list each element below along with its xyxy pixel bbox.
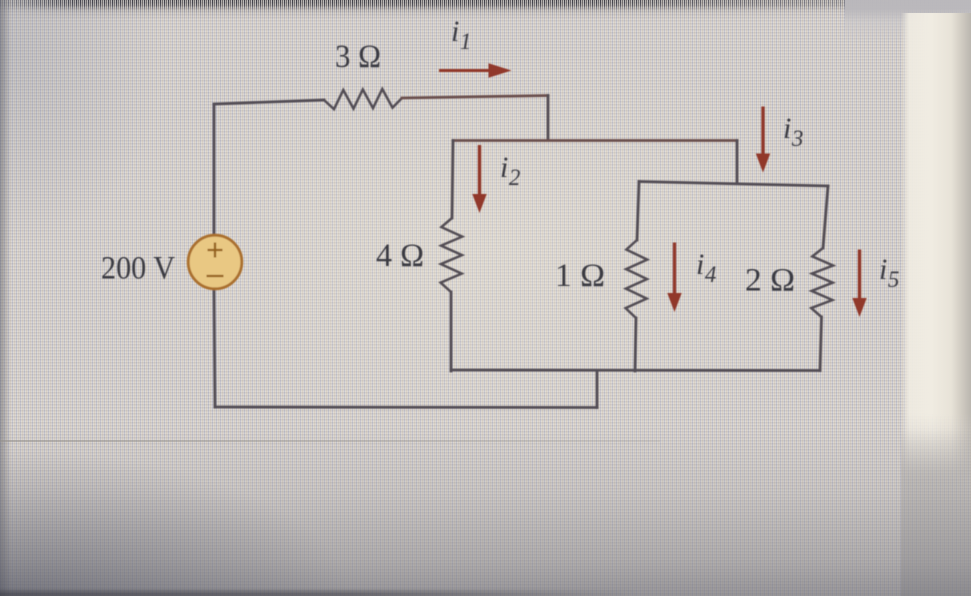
svg-text:2 Ω: 2 Ω — [745, 263, 795, 299]
svg-text:i1: i1 — [451, 15, 471, 54]
wire middle bottom bus — [451, 369, 820, 372]
wire top left — [214, 100, 324, 104]
wire 1 ohm branch bottom lead — [635, 318, 636, 371]
wire 1 ohm branch top lead — [637, 182, 639, 241]
wire outer bottom return — [215, 406, 597, 409]
voltage source V1 200V (circle) — [188, 235, 242, 289]
wire 2 ohm branch bottom lead — [820, 317, 822, 371]
resistor R2 4 ohm (vertical zigzag) — [441, 218, 463, 292]
svg-text:4 Ω: 4 Ω — [376, 238, 424, 274]
svg-text:i5: i5 — [879, 253, 899, 292]
wire left vertical (source top lead) — [213, 105, 216, 235]
wire 4 ohm branch bottom lead — [450, 292, 453, 371]
current arrow i3 — [756, 107, 770, 173]
svg-text:1 Ω: 1 Ω — [555, 258, 605, 294]
wire jog down to outer bottom — [596, 371, 599, 408]
current arrow i2 — [472, 145, 486, 213]
svg-text:i3: i3 — [783, 112, 803, 151]
wire middle horizontal (node A bus) — [453, 139, 737, 142]
current arrow i4 — [667, 243, 681, 313]
svg-text:200 V: 200 V — [101, 251, 175, 287]
svg-text:i4: i4 — [696, 248, 716, 287]
svg-text:i2: i2 — [500, 151, 520, 190]
wire top right of 3 ohm — [402, 96, 548, 99]
wire 4 ohm branch top lead — [452, 141, 453, 219]
svg-text:3 Ω: 3 Ω — [335, 39, 381, 75]
resistor R1 3 ohm (horizontal zigzag) — [324, 89, 402, 109]
resistor R3 1 ohm (vertical zigzag) — [626, 240, 648, 318]
current arrow i5 — [852, 250, 866, 318]
wire drop at node A — [547, 96, 550, 141]
wire top of 1-2 ohm box (node B bus) — [639, 182, 828, 187]
wire left vertical (source bottom lead) — [214, 289, 215, 407]
resistor R4 2 ohm (vertical zigzag) — [811, 248, 833, 317]
wire 2 ohm branch top lead — [823, 186, 828, 248]
current arrow i1 — [439, 63, 512, 77]
wire drop to node B — [736, 141, 739, 183]
